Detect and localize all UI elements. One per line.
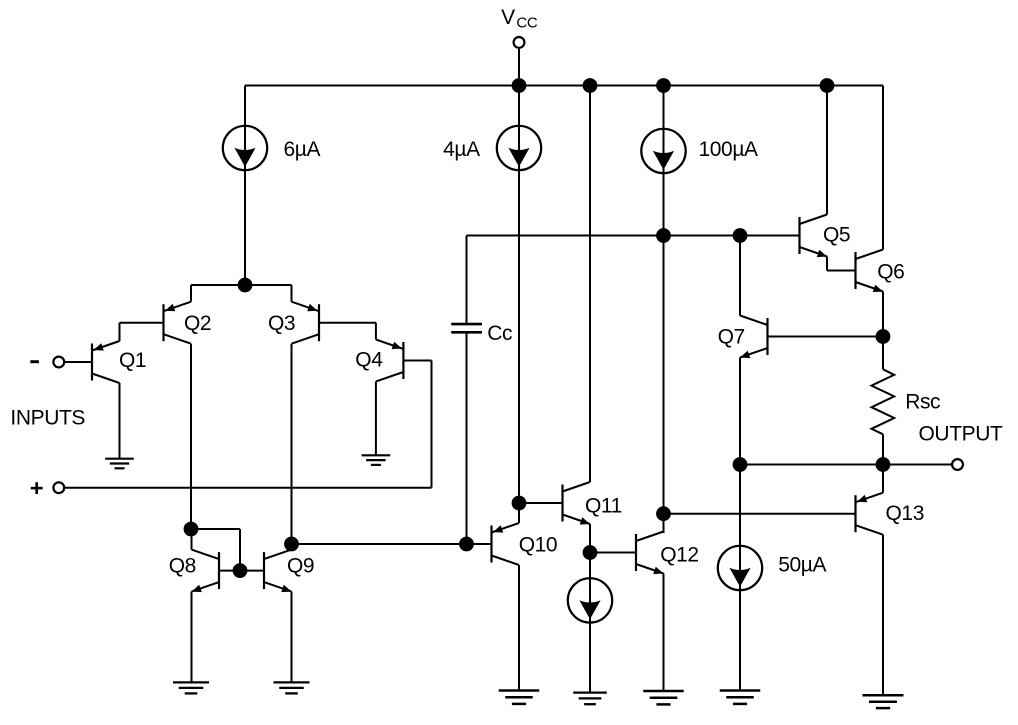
svg-text:Q11: Q11 (585, 495, 622, 518)
svg-text:INPUTS: INPUTS (10, 406, 85, 429)
svg-text:OUTPUT: OUTPUT (919, 422, 1004, 445)
svg-text:V: V (501, 6, 515, 29)
svg-text:Q6: Q6 (877, 260, 904, 283)
svg-text:6µA: 6µA (284, 138, 321, 161)
svg-text:4µA: 4µA (443, 138, 480, 161)
svg-text:50µA: 50µA (778, 554, 826, 577)
svg-text:Q1: Q1 (119, 349, 146, 372)
svg-text:Cc: Cc (487, 322, 512, 345)
svg-text:Q4: Q4 (355, 348, 383, 371)
svg-text:Rsc: Rsc (905, 390, 940, 413)
svg-text:100µA: 100µA (699, 138, 759, 161)
svg-text:CC: CC (516, 14, 537, 31)
svg-text:Q3: Q3 (268, 312, 295, 335)
svg-text:Q7: Q7 (718, 326, 745, 349)
svg-text:Q5: Q5 (823, 224, 850, 247)
svg-text:Q12: Q12 (660, 544, 699, 567)
svg-text:Q8: Q8 (169, 554, 196, 577)
svg-text:Q9: Q9 (287, 554, 314, 577)
svg-text:Q10: Q10 (519, 534, 558, 557)
svg-text:Q2: Q2 (184, 312, 211, 335)
svg-text:Q13: Q13 (886, 502, 925, 525)
